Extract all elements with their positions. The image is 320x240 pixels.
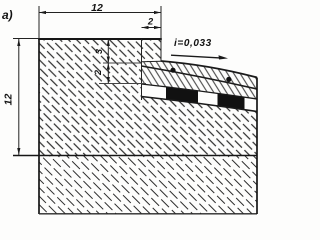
slope direction arrow [171,55,220,58]
striped layer black cell 1 [166,87,198,103]
extension line at mid level [103,62,142,64]
horizontal boundary line between blocks [13,155,257,157]
dimension 12 (left) line [18,39,20,155]
surface line L1 of slope [161,61,257,78]
band line L2 [142,66,258,89]
left edge of embankment and foundation [38,38,40,214]
band line L4 [142,97,258,112]
curb block right edge / extension line (x=161) [160,6,162,61]
arrowhead up at road surface [107,39,110,46]
band line L3 [142,84,258,99]
svg-text:2: 2 [147,17,154,28]
arrowhead bottom of left 12 [17,148,20,155]
dimension 12 (top) line [39,12,161,14]
extension line for left 12 (top) [13,38,39,40]
svg-text:12: 12 [3,94,15,106]
top edge of embankment [38,38,162,40]
arrowhead down at lower level [107,77,110,84]
arrowhead left of dim 2 [142,26,149,29]
slope band layer 1 (between surface L1 and L2, steep hatch) [142,61,258,89]
double arrowheads at mid level [107,57,110,64]
extension line at lower level [99,83,146,85]
arrowhead right of top 12 [154,11,161,14]
chain dimension vertical line (3 and 2) [107,39,109,84]
arrowhead left of top 12 [39,11,46,14]
arrowhead right of dim 2 [154,26,161,29]
lower foundation block (hatched fill) [39,156,257,214]
extension line above left corner [38,6,40,39]
striped layer background (white, between L3 and L4) [142,84,258,112]
stone dot 1 on band line L2 [170,68,175,73]
right edge of figure [256,78,258,215]
paper background [0,0,265,225]
svg-text:3: 3 [94,49,104,54]
slope band layer 2 (between L2 and L3, steep hatch) [142,66,258,99]
upper embankment block (hatched fill) [39,39,257,155]
stone dot 2 on band line L2 [226,77,231,82]
svg-text:i=0,033: i=0,033 [174,38,212,49]
bottom edge of foundation [39,213,257,215]
curb block left edge (x=141.5) [141,39,143,100]
striped layer black cell 2 [218,93,245,109]
dimension 2 (top right) line [142,27,162,29]
arrowhead top of left 12 [17,39,20,46]
svg-text:2: 2 [93,70,103,76]
svg-text:а): а) [2,8,13,22]
curb block bottom edge [142,60,162,63]
svg-text:12: 12 [91,2,103,14]
